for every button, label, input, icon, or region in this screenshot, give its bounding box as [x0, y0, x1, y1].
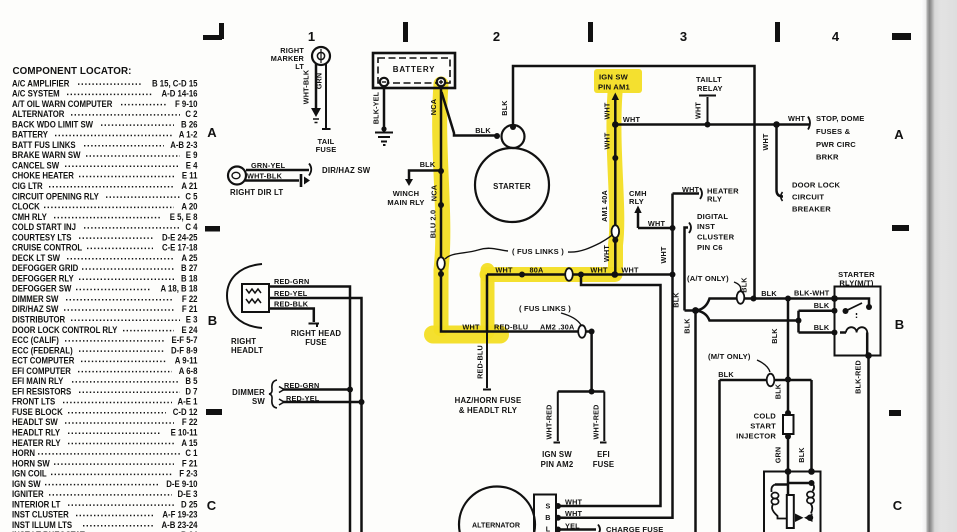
svg-text:BLK-RED: BLK-RED — [854, 360, 863, 394]
svg-text:HEADLT SW: HEADLT SW — [12, 417, 59, 428]
svg-text:F 2-3: F 2-3 — [179, 468, 197, 479]
svg-text:WHT-RED: WHT-RED — [592, 405, 601, 440]
svg-text:D-E 9-10: D-E 9-10 — [166, 478, 197, 489]
svg-text:E-F 5-7: E-F 5-7 — [171, 334, 197, 345]
svg-text:BLU 2.0: BLU 2.0 — [429, 210, 438, 239]
svg-text:BLK: BLK — [797, 447, 806, 463]
svg-text:E 10-11: E 10-11 — [171, 427, 198, 438]
svg-text:ECC (CALIF): ECC (CALIF) — [12, 334, 59, 345]
svg-text:DIR/HAZ SW: DIR/HAZ SW — [322, 166, 371, 175]
svg-text:80A: 80A — [530, 266, 545, 275]
svg-text:EFI MAIN RLY: EFI MAIN RLY — [12, 375, 64, 386]
svg-text:A/T OIL WARN COMPUTER: A/T OIL WARN COMPUTER — [12, 98, 112, 109]
svg-text:EFI COMPUTER: EFI COMPUTER — [12, 365, 71, 376]
svg-text:F 21: F 21 — [182, 458, 198, 469]
svg-text:F 22: F 22 — [182, 293, 198, 304]
svg-text:C: C — [207, 498, 217, 513]
svg-text:RIGHT DIR LT: RIGHT DIR LT — [230, 188, 283, 197]
svg-text:WHT: WHT — [590, 266, 608, 275]
svg-text:E 4: E 4 — [186, 160, 198, 171]
svg-text:IGN COIL: IGN COIL — [12, 468, 47, 479]
svg-text:LT: LT — [295, 62, 304, 71]
svg-text:DOOR LOCK CONTROL RLY: DOOR LOCK CONTROL RLY — [12, 324, 118, 335]
svg-text:BRKR: BRKR — [816, 153, 839, 162]
svg-text:BACK WDO LIMIT SW: BACK WDO LIMIT SW — [12, 119, 94, 130]
svg-text:D 7: D 7 — [185, 386, 197, 397]
svg-text:BRAKE WARN SW: BRAKE WARN SW — [12, 150, 81, 161]
svg-text:BLK: BLK — [683, 318, 692, 334]
svg-text:F 21: F 21 — [182, 304, 198, 315]
svg-text:B 27: B 27 — [181, 263, 198, 274]
svg-text:ECT COMPUTER: ECT COMPUTER — [12, 355, 74, 366]
svg-text:SW: SW — [252, 397, 265, 406]
svg-text:FUSE: FUSE — [316, 145, 337, 154]
svg-text:NCA: NCA — [430, 184, 439, 201]
svg-text:C 2: C 2 — [185, 108, 197, 119]
svg-text:WHT-BLK: WHT-BLK — [302, 69, 311, 104]
svg-text:BATTERY: BATTERY — [12, 129, 48, 140]
svg-text:(A/T ONLY): (A/T ONLY) — [687, 274, 729, 283]
svg-text:A: A — [207, 125, 217, 140]
svg-text:C: C — [893, 498, 903, 513]
svg-text:( FUS LINKS ): ( FUS LINKS ) — [519, 304, 571, 313]
svg-text:START: START — [750, 422, 776, 431]
svg-text:RELAY: RELAY — [697, 84, 723, 93]
svg-text:WHT: WHT — [603, 132, 612, 149]
svg-text:WHT: WHT — [603, 102, 612, 119]
svg-text:CHARGE FUSE: CHARGE FUSE — [606, 525, 663, 532]
svg-text:IGN SW: IGN SW — [599, 73, 629, 82]
svg-text:E 9: E 9 — [186, 150, 198, 161]
svg-text:WHT: WHT — [495, 266, 513, 275]
svg-text:WHT: WHT — [788, 114, 806, 123]
svg-text:HEADLT RLY: HEADLT RLY — [12, 427, 60, 438]
svg-text:HORN SW: HORN SW — [12, 458, 51, 469]
svg-text:WHT-BLK: WHT-BLK — [247, 172, 283, 181]
svg-text:IGNITER: IGNITER — [12, 488, 44, 499]
svg-text:DOOR LOCK: DOOR LOCK — [792, 181, 841, 190]
svg-text:& HEADLT RLY: & HEADLT RLY — [459, 406, 518, 415]
svg-text:A/C AMPLIFIER: A/C AMPLIFIER — [12, 78, 69, 89]
svg-text:F 9-10: F 9-10 — [175, 98, 198, 109]
svg-text:CIG LTR: CIG LTR — [12, 180, 43, 191]
svg-text:( FUS LINKS ): ( FUS LINKS ) — [512, 247, 564, 256]
svg-text:WHT-RED: WHT-RED — [545, 405, 554, 440]
svg-text:C 5: C 5 — [185, 191, 197, 202]
svg-text:D-F 8-9: D-F 8-9 — [171, 345, 198, 356]
svg-text:COURTESY LTS: COURTESY LTS — [12, 232, 72, 243]
svg-text:A-D 14-16: A-D 14-16 — [162, 88, 198, 99]
svg-text:B: B — [545, 513, 550, 522]
svg-text:DEFOGGER SW: DEFOGGER SW — [12, 283, 72, 294]
svg-text:HEADLT: HEADLT — [231, 346, 263, 355]
svg-text:BLK: BLK — [761, 289, 777, 298]
svg-text:BLK: BLK — [475, 126, 491, 135]
svg-text:A/C SYSTEM: A/C SYSTEM — [12, 88, 60, 99]
svg-text:A-B 2-3: A-B 2-3 — [170, 139, 198, 150]
svg-text:IGN SW: IGN SW — [542, 450, 572, 459]
svg-text:RIGHT HEAD: RIGHT HEAD — [291, 329, 342, 338]
svg-text:BLK: BLK — [718, 370, 734, 379]
svg-text:3: 3 — [680, 29, 687, 44]
svg-text:E 3: E 3 — [186, 314, 198, 325]
svg-text:WHT: WHT — [565, 509, 583, 518]
svg-text:D-E 3: D-E 3 — [178, 488, 198, 499]
svg-text:CHOKE HEATER: CHOKE HEATER — [12, 170, 74, 181]
svg-text:BREAKER: BREAKER — [792, 205, 831, 214]
svg-text:NCA: NCA — [429, 98, 438, 115]
svg-text:B: B — [895, 317, 904, 332]
svg-text:HEATER RLY: HEATER RLY — [12, 437, 61, 448]
svg-text:GRN-YEL: GRN-YEL — [251, 161, 286, 170]
svg-text:DIMMER: DIMMER — [232, 388, 265, 397]
svg-text:(M/T ONLY): (M/T ONLY) — [708, 352, 751, 361]
svg-text:INST CLUSTER: INST CLUSTER — [12, 509, 69, 520]
svg-text:A-B 23-24: A-B 23-24 — [162, 519, 198, 530]
svg-text:EFI RESISTORS: EFI RESISTORS — [12, 386, 72, 397]
svg-text:RED-YEL: RED-YEL — [274, 289, 308, 298]
svg-text:AM2 .30A: AM2 .30A — [540, 323, 575, 332]
svg-text:A 1-2: A 1-2 — [179, 129, 198, 140]
svg-text:ALTERNATOR: ALTERNATOR — [472, 522, 521, 530]
svg-text:STOP, DOME: STOP, DOME — [816, 114, 865, 123]
svg-text:A 15: A 15 — [181, 437, 197, 448]
svg-text:DIMMER SW: DIMMER SW — [12, 293, 59, 304]
svg-text:EFI: EFI — [597, 450, 610, 459]
svg-text:DECK LT SW: DECK LT SW — [12, 252, 61, 263]
svg-text:WHT: WHT — [623, 115, 641, 124]
svg-text:HAZ/HORN FUSE: HAZ/HORN FUSE — [455, 396, 522, 405]
svg-text:CIRCUIT OPENING RLY: CIRCUIT OPENING RLY — [12, 191, 99, 202]
svg-text:E 5, E 8: E 5, E 8 — [170, 211, 198, 222]
svg-text:TAILLT: TAILLT — [696, 75, 722, 84]
svg-text:BATTERY: BATTERY — [393, 65, 436, 74]
svg-text:BLK: BLK — [420, 160, 436, 169]
svg-text:DISTRIBUTOR: DISTRIBUTOR — [12, 314, 65, 325]
svg-text:WHT: WHT — [694, 102, 703, 119]
svg-text:RIGHT: RIGHT — [231, 337, 256, 346]
svg-text:DIR/HAZ SW: DIR/HAZ SW — [12, 304, 59, 315]
svg-text:STARTER: STARTER — [493, 182, 531, 191]
svg-text:A-F 19-23: A-F 19-23 — [162, 509, 197, 520]
svg-text:B 18: B 18 — [181, 273, 198, 284]
svg-text:C-E 17-18: C-E 17-18 — [162, 242, 198, 253]
svg-text:INTERIOR LT: INTERIOR LT — [12, 499, 61, 510]
svg-text:RLY(M/T): RLY(M/T) — [839, 279, 873, 288]
svg-text:A-E 1: A-E 1 — [178, 396, 198, 407]
svg-text:COMPONENT LOCATOR:: COMPONENT LOCATOR: — [13, 66, 132, 77]
svg-text:BLK-WHT: BLK-WHT — [794, 289, 830, 298]
svg-text:A 6-8: A 6-8 — [179, 365, 198, 376]
svg-text:C 1: C 1 — [185, 447, 197, 458]
svg-text:E 24: E 24 — [181, 324, 197, 335]
svg-text:FRONT LTS: FRONT LTS — [12, 396, 55, 407]
svg-text:BLK: BLK — [500, 100, 509, 116]
svg-text:COLD: COLD — [754, 412, 777, 421]
svg-text:WHT: WHT — [761, 133, 770, 150]
svg-text:FUSES &: FUSES & — [816, 127, 851, 136]
svg-text:D-E 24-25: D-E 24-25 — [162, 232, 198, 243]
svg-text:S: S — [546, 502, 551, 511]
svg-text:RLY: RLY — [629, 197, 644, 206]
svg-text:WHT: WHT — [565, 498, 583, 507]
svg-text:ECC (FEDERAL): ECC (FEDERAL) — [12, 345, 73, 356]
svg-text:F 22: F 22 — [182, 417, 198, 428]
svg-text:A 9-11: A 9-11 — [175, 355, 198, 366]
svg-text:BLK: BLK — [814, 323, 830, 332]
svg-text:WHT: WHT — [462, 323, 480, 332]
svg-text:B 15, C-D 15: B 15, C-D 15 — [152, 78, 198, 89]
svg-text:RED-BLK: RED-BLK — [274, 300, 309, 309]
svg-text:CMH RLY: CMH RLY — [12, 211, 47, 222]
svg-text:COLD START INJ: COLD START INJ — [12, 221, 76, 232]
svg-text:C-D 12: C-D 12 — [173, 406, 198, 417]
svg-text:RLY: RLY — [707, 195, 722, 204]
svg-text:CRUISE CONTROL: CRUISE CONTROL — [12, 242, 82, 253]
svg-text:BLK: BLK — [770, 328, 779, 344]
svg-text:YEL: YEL — [565, 522, 580, 531]
svg-text:DEFOGGER RLY: DEFOGGER RLY — [12, 273, 74, 284]
svg-text:CIRCUIT: CIRCUIT — [792, 193, 824, 202]
svg-text:B 26: B 26 — [181, 119, 198, 130]
svg-text:FUSE: FUSE — [593, 460, 615, 469]
svg-text:RED-BLU: RED-BLU — [476, 345, 485, 379]
svg-text:4: 4 — [832, 29, 840, 44]
svg-text:WHT: WHT — [621, 266, 639, 275]
svg-text:WHT: WHT — [602, 245, 611, 262]
svg-text:BLK: BLK — [814, 301, 830, 310]
svg-text:CLUSTER: CLUSTER — [697, 233, 735, 242]
svg-text:WHT: WHT — [659, 246, 668, 263]
svg-text:HORN: HORN — [12, 447, 35, 458]
svg-text:B: B — [208, 313, 217, 328]
svg-text:1: 1 — [308, 29, 315, 44]
svg-text:A 20: A 20 — [181, 201, 197, 212]
svg-text:A 21: A 21 — [181, 180, 197, 191]
svg-text:GRN: GRN — [315, 73, 324, 90]
svg-text:WINCH: WINCH — [393, 189, 419, 198]
svg-text:C 4: C 4 — [185, 221, 197, 232]
svg-text:PIN AM2: PIN AM2 — [541, 460, 574, 469]
svg-text:PIN C6: PIN C6 — [697, 243, 723, 252]
svg-text:MAIN RLY: MAIN RLY — [387, 198, 424, 207]
svg-text:CANCEL SW: CANCEL SW — [12, 160, 60, 171]
svg-text:BLK: BLK — [774, 383, 783, 399]
svg-text:INST: INST — [697, 222, 715, 231]
svg-text:2: 2 — [493, 29, 500, 44]
svg-text:BLK: BLK — [672, 292, 681, 308]
svg-text:RED-GRN: RED-GRN — [274, 277, 309, 286]
svg-text:WHT: WHT — [682, 185, 700, 194]
svg-text:GRN: GRN — [774, 447, 783, 464]
svg-text:A 18, B 18: A 18, B 18 — [161, 283, 198, 294]
svg-text:A 25: A 25 — [181, 252, 197, 263]
svg-text:DEFOGGER GRID: DEFOGGER GRID — [12, 263, 78, 274]
svg-text:PIN AM1: PIN AM1 — [598, 83, 630, 92]
svg-text:DIGITAL: DIGITAL — [697, 212, 728, 221]
svg-text:E 11: E 11 — [182, 170, 198, 181]
svg-text:L: L — [546, 525, 551, 532]
svg-text:FUSE BLOCK: FUSE BLOCK — [12, 406, 63, 417]
svg-text:A: A — [894, 127, 904, 142]
svg-text:AM1 40A: AM1 40A — [600, 190, 609, 222]
svg-text:WHT: WHT — [648, 219, 666, 228]
svg-text:INJECTOR: INJECTOR — [736, 432, 776, 441]
svg-text:ALTERNATOR: ALTERNATOR — [12, 108, 64, 119]
svg-text:INST ILLUM LTS: INST ILLUM LTS — [12, 519, 72, 530]
svg-text:B 5: B 5 — [185, 375, 197, 386]
svg-text:BLK-YEL: BLK-YEL — [372, 91, 381, 124]
svg-text:RED-BLU: RED-BLU — [494, 323, 528, 332]
svg-text:BATT FUS LINKS: BATT FUS LINKS — [12, 139, 76, 150]
svg-text:PWR CIRC: PWR CIRC — [816, 140, 856, 149]
svg-text:CLOCK: CLOCK — [12, 201, 41, 212]
svg-text:FUSE: FUSE — [305, 338, 327, 347]
svg-text:D 25: D 25 — [181, 499, 198, 510]
svg-text:IGN SW: IGN SW — [12, 478, 41, 489]
